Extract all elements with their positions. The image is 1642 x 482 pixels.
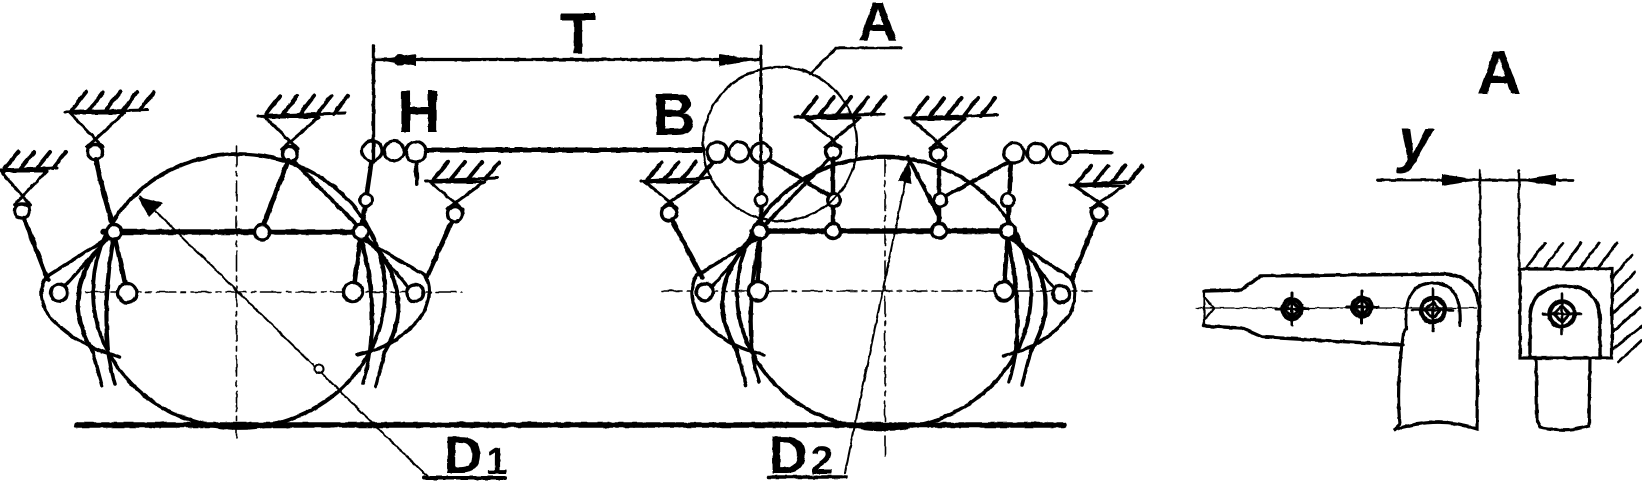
diagonal link pin to joint W2 left [766, 158, 832, 197]
arm fan W2 right pivot [1011, 233, 1046, 351]
dimension extension line left [372, 46, 375, 162]
D2 leader arrowhead [898, 161, 912, 184]
shoe 2 [1536, 358, 1590, 430]
pin P1 [1276, 293, 1308, 325]
joint circles [360, 194, 373, 207]
svg-text:D: D [769, 426, 807, 482]
detail y arrow left [1442, 174, 1479, 186]
balance beam W2 [752, 228, 1014, 233]
link S2 to right beam pivot [293, 161, 359, 227]
detail y arrow right [1519, 174, 1556, 186]
swing arm S1 to beam pivot [96, 159, 113, 225]
svg-text:H: H [397, 78, 440, 145]
svg-text:B: B [652, 81, 695, 148]
bracket plate W2 right [1003, 235, 1075, 356]
swing arm S2 to middle beam pivot [263, 161, 288, 226]
link pin boss arc [1406, 283, 1460, 329]
detail extension line 2 [1518, 170, 1520, 270]
fixed support S1 [65, 92, 154, 160]
D1 leader marker circle [315, 365, 324, 374]
vertical link right pins to W2 beam [1008, 159, 1011, 226]
track pin circles middle trio [707, 142, 727, 162]
fixed support S5 mid left [426, 162, 499, 222]
bracket plate W1 right [357, 236, 429, 355]
track link fork tip [1204, 291, 1214, 326]
pin P4 [1543, 294, 1581, 334]
D1 leader line [140, 196, 428, 477]
blob on dimension line [395, 55, 406, 66]
D1 leader arrowhead [138, 197, 163, 217]
ground line [77, 422, 1064, 428]
diagonal link pin to joint W2 right [944, 158, 1016, 197]
fixed support SR far right [1070, 166, 1142, 221]
svg-text:A: A [858, 0, 898, 53]
dimension line T [376, 58, 759, 61]
fixed block [1520, 269, 1612, 358]
fixed support S4 [905, 98, 997, 162]
track line right segment [1066, 150, 1111, 154]
track line between wheels [423, 148, 703, 153]
bracket plate W2 left [692, 235, 764, 355]
D2 underline [768, 475, 846, 479]
detail view: dimension line y [1378, 179, 1573, 182]
pin boss 2 [1530, 286, 1600, 357]
dimension T right arrow [719, 54, 758, 66]
wheel W2 vertical centerline [884, 156, 886, 460]
svg-text:A: A [1477, 39, 1522, 108]
steep tie rod to S4 joint [908, 157, 940, 218]
link S0 to bracket circle [24, 218, 48, 280]
svg-text:1: 1 [486, 441, 507, 482]
arm fan W1 right pivot [363, 234, 398, 352]
beam pivot circles W1 [107, 225, 122, 240]
track pin circles left trio [362, 141, 382, 161]
fixed support S3 [795, 97, 885, 160]
wheel W2 horizontal centerline [662, 290, 1092, 292]
diagonal link W2 beam to S3 [766, 160, 828, 224]
D1 underline [424, 476, 505, 480]
detail A leader [810, 48, 901, 74]
wheel W2 tire ellipse [737, 157, 1031, 429]
dimension T left arrow [377, 54, 416, 66]
wheel W1 tire ellipse [93, 154, 385, 428]
wheel W1 vertical centerline [236, 146, 238, 438]
arm fan W1 left pivot [78, 234, 111, 352]
vertical link track pin to W2 beam [759, 160, 764, 226]
vertical link S4 to W2 beam [937, 161, 942, 226]
fixed support S6 mid right [641, 162, 713, 221]
link S6 to bracket [672, 220, 702, 277]
svg-text:T: T [560, 2, 595, 67]
pin stem left trio [416, 162, 417, 184]
detail extension line 1 [1479, 170, 1481, 330]
fixed support S2 [258, 96, 348, 162]
dimension extension line right [760, 46, 763, 165]
svg-text:D: D [444, 426, 482, 482]
hub circles [118, 284, 137, 303]
link SR to bracket [1072, 220, 1096, 279]
detail callout circle [703, 67, 857, 221]
bracket plate W1 left [41, 237, 120, 357]
link S5 to bracket [427, 221, 452, 277]
vertical link S3 to W2 beam [831, 159, 836, 226]
shoe 1 [1394, 330, 1478, 430]
D2 leader line [845, 163, 909, 473]
track link center line [1196, 307, 1476, 309]
pin P3 (big) [1413, 289, 1453, 331]
pin P2 [1346, 291, 1378, 323]
svg-text:y: y [1395, 107, 1434, 174]
block hatch top [1527, 243, 1617, 267]
block hatch right [1612, 255, 1642, 362]
track pin circles right trio [1004, 143, 1024, 163]
wheel W1 horizontal centerline [86, 291, 462, 293]
track link bar outline [1204, 274, 1479, 332]
bracket circles [51, 285, 68, 302]
balance beam W1 [103, 229, 368, 234]
svg-text:2: 2 [811, 439, 833, 482]
beam pivot circles W2 [753, 224, 768, 239]
fixed support S0 low left [0, 152, 66, 219]
vertical link at left wheel right pivot [362, 158, 372, 227]
arm fan W2 left pivot [722, 233, 757, 351]
